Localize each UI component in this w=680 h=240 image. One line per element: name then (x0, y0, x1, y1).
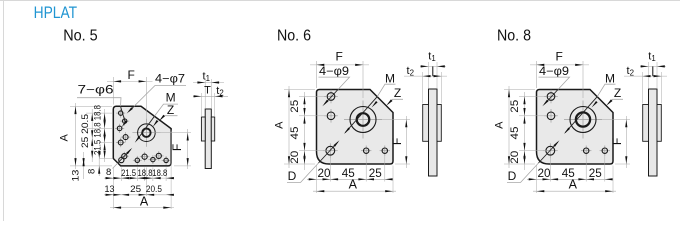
svg-text:A: A (140, 194, 149, 208)
svg-text:Z: Z (394, 86, 401, 100)
dimension F right No.8 (598, 119, 630, 121)
dimension F right No.5 (152, 132, 191, 134)
svg-text:20: 20 (538, 168, 551, 180)
svg-text:21.5 18.8 18.8: 21.5 18.8 18.8 (92, 105, 103, 155)
bottom extension lines No.6 (316, 166, 318, 194)
center hole No.5 threaded ring (142, 129, 150, 137)
dimension t2 No.8 (624, 75, 667, 77)
side view No.6 extension lines (428, 62, 430, 88)
dimension row 13/25/20.5 No.5 (104, 194, 171, 196)
plate No.8 outline (537, 90, 614, 165)
svg-text:A: A (494, 121, 506, 129)
dimension row 20/45/25 No.8 (527, 178, 610, 180)
svg-text:7−φ6: 7−φ6 (78, 85, 114, 97)
center hole No.6 outer circle (350, 107, 376, 133)
svg-text:4−φ7: 4−φ7 (155, 74, 185, 86)
dimension A left No.5 (75, 103, 77, 169)
upper-left holes No.6 (324, 96, 338, 98)
dimension T and t2 No.5 (193, 95, 228, 97)
svg-text:M: M (605, 72, 615, 86)
dimension t1 No.5 (193, 82, 224, 84)
svg-text:25: 25 (369, 168, 382, 180)
center hole No.8 outer circle (570, 107, 596, 133)
bottom-left pair holes No.5 (120, 155, 129, 157)
svg-text:8: 8 (87, 169, 98, 174)
svg-text:20.5: 20.5 (146, 184, 162, 195)
side view No.8 right boss (657, 105, 661, 142)
side view No.5 plate section (205, 109, 211, 169)
center hole No.6 crosshair (344, 119, 382, 121)
side view No.5 left boss (201, 117, 205, 141)
svg-text:F: F (556, 49, 563, 63)
svg-text:8: 8 (106, 167, 111, 178)
svg-text:HPLAT: HPLAT (34, 4, 78, 22)
dimension F right No.6 (378, 119, 410, 121)
left extension lines No.6 (284, 89, 315, 91)
dimension F top No.8 (536, 61, 538, 88)
svg-text:No. 5: No. 5 (63, 28, 97, 45)
svg-text:A: A (349, 177, 358, 191)
center hole No.5 outer circle (138, 124, 156, 142)
svg-text:25: 25 (289, 100, 301, 113)
center hole No.5 crosshair (132, 132, 160, 134)
plate No.5 outline (113, 106, 171, 166)
svg-text:No. 8: No. 8 (497, 28, 531, 45)
bottom holes No.6 (361, 150, 371, 152)
svg-text:4−φ9: 4−φ9 (539, 66, 569, 78)
diagonal through bottom-left pair holes No.5 (113, 163, 118, 169)
svg-text:Z: Z (614, 86, 621, 100)
svg-text:F: F (170, 144, 184, 151)
center hole No.8 crosshair (564, 119, 602, 121)
svg-text:No. 6: No. 6 (277, 28, 311, 45)
svg-text:Z: Z (167, 103, 174, 117)
left extension lines No.5 (70, 105, 112, 107)
side view No.8 plate section (649, 89, 658, 176)
svg-text:20: 20 (289, 151, 301, 164)
svg-text:20: 20 (318, 168, 331, 180)
side view No.8 left boss (643, 105, 649, 142)
bottom holes No.8 (581, 150, 591, 152)
svg-text:25: 25 (509, 100, 521, 113)
svg-text:T: T (204, 85, 211, 97)
svg-text:13: 13 (70, 170, 81, 182)
svg-text:20: 20 (509, 151, 521, 164)
svg-text:A: A (569, 177, 578, 191)
dimension F top No.5 (112, 77, 114, 105)
dimension t2 No.6 (404, 75, 447, 77)
dimension F top No.6 (316, 61, 318, 88)
side view No.6 right boss (437, 105, 441, 142)
dimension row 20/45/25 No.6 (307, 178, 390, 180)
svg-text:A: A (59, 133, 71, 141)
plate No.6 outline (317, 90, 394, 165)
faint page grid line top (0, 0, 680, 2)
svg-text:A: A (274, 121, 286, 129)
dimension row 8/21.5/18.8/18.8 No.5 (104, 177, 171, 179)
svg-text:4−φ9: 4−φ9 (319, 66, 349, 78)
dimension chain 25/20.5 No.5 (91, 109, 93, 162)
svg-text:25: 25 (589, 168, 602, 180)
svg-text:D: D (508, 169, 517, 183)
svg-text:45: 45 (509, 127, 521, 140)
bottom-left hole No.8 (543, 150, 558, 152)
dimension chain 25/45/20 left No.6 (304, 92, 306, 170)
svg-text:F: F (336, 49, 343, 63)
svg-text:18.8: 18.8 (152, 168, 167, 179)
dimension t1 No.8 (640, 65, 666, 67)
dimension A bottom No.6 (313, 190, 396, 192)
dimension A bottom No.8 (533, 190, 616, 192)
svg-text:21.5: 21.5 (121, 168, 136, 179)
bottom-left hole No.6 (323, 150, 338, 152)
side view No.5 extension lines (204, 79, 206, 108)
left column holes No.5 (7-phi6 / 4-phi7) (116, 112, 125, 114)
bottom extension lines No.5 (112, 168, 114, 210)
left extension lines No.8 (504, 89, 535, 91)
dimension A bottom No.5 (110, 207, 174, 209)
center hole No.8 threaded ring (576, 112, 590, 126)
dimension 13 bottom-left rotated No.5 (83, 152, 85, 179)
svg-text:F: F (128, 68, 135, 82)
upper-left holes No.8 (544, 96, 558, 98)
side view No.6 plate section (429, 89, 438, 176)
dimension A left No.8 (508, 86, 510, 168)
bottom extension lines No.8 (536, 166, 538, 194)
dimension chain 25/45/20 left No.8 (524, 92, 526, 170)
svg-text:F: F (610, 138, 624, 145)
svg-text:M: M (385, 72, 395, 86)
dimension t1 No.6 (420, 65, 446, 67)
svg-text:D: D (288, 169, 297, 183)
svg-text:18.8: 18.8 (138, 168, 153, 179)
svg-text:25: 25 (130, 184, 141, 195)
center hole No.6 threaded ring (357, 113, 370, 126)
side view No.6 left boss (423, 105, 429, 142)
side view No.8 extension lines (648, 62, 650, 88)
bottom row holes No.5 (133, 159, 142, 161)
svg-text:13: 13 (105, 184, 115, 195)
faint page grid line left (3, 0, 5, 221)
svg-text:45: 45 (289, 127, 301, 140)
dimension A left No.6 (288, 86, 290, 168)
svg-text:F: F (390, 138, 404, 145)
dimension chain 21.5/18.8/18.8 No.5 (104, 109, 106, 162)
side view No.5 right boss (211, 117, 214, 141)
dimension 8 bottom-left rotated No.5 (98, 155, 100, 176)
svg-text:25 20.5: 25 20.5 (80, 114, 91, 148)
